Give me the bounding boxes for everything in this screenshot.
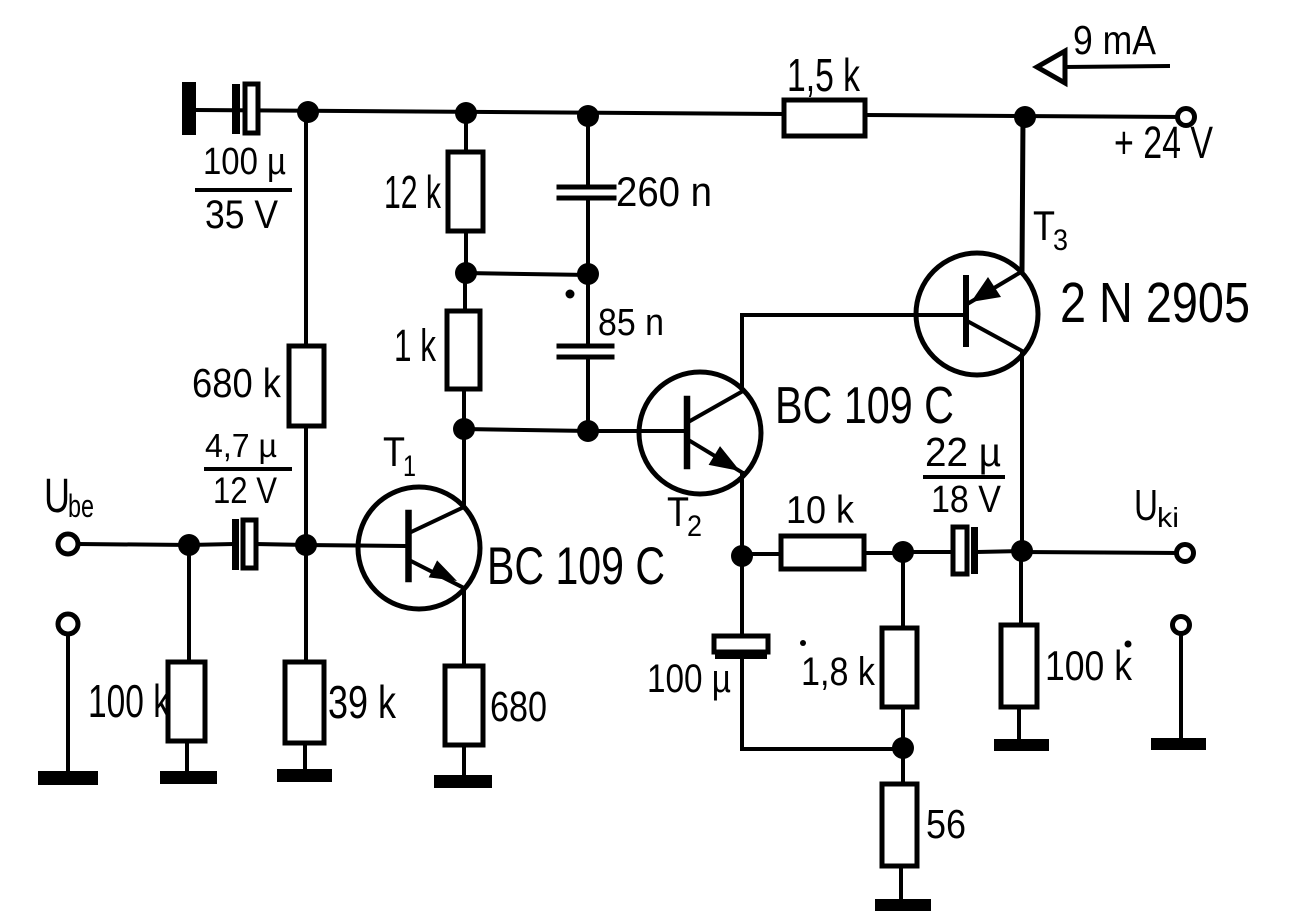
- wire junction E down to R100k left: [187, 545, 191, 662]
- wire junction K down to C100u: [740, 556, 744, 637]
- svg-text:3: 3: [1053, 224, 1068, 257]
- wire R56 to ground: [899, 866, 903, 900]
- ground left stub: [38, 771, 98, 785]
- current arrow 9mA: [1037, 51, 1168, 83]
- wire left stub to ground: [66, 634, 70, 772]
- svg-text:39 k: 39 k: [328, 676, 397, 728]
- label Ube: [44, 470, 94, 524]
- node junction A top rail x308: [297, 101, 319, 123]
- svg-text:+ 24 V: + 24 V: [1114, 117, 1213, 168]
- capacitor C5 22u/18V: [953, 527, 978, 574]
- ground below R56: [875, 899, 931, 911]
- svg-text:be: be: [68, 488, 94, 524]
- node junction E input x189: [178, 534, 200, 556]
- resistor R3 12k: [448, 152, 483, 231]
- svg-text:100 k: 100 k: [1045, 642, 1133, 689]
- svg-text:100 µ: 100 µ: [647, 657, 731, 701]
- resistor R10 39k: [285, 662, 324, 743]
- node junction B top rail x466: [455, 102, 477, 124]
- svg-text:1 k: 1 k: [394, 320, 436, 371]
- resistor R9 100k left: [168, 662, 205, 741]
- resistor R1 1.5k: [784, 100, 865, 136]
- wire junction I down to C85n: [586, 274, 590, 345]
- resistor R2 680k: [289, 346, 324, 426]
- wire junction L to C22u: [903, 550, 953, 554]
- terminal bar left of C1: [182, 82, 196, 135]
- wire T3 collector down to output row: [1020, 352, 1024, 551]
- svg-text:56: 56: [926, 801, 966, 847]
- capacitor C6 100u: [714, 636, 768, 659]
- node junction H x464 y429: [453, 418, 475, 440]
- wire junction to C2: [189, 544, 232, 545]
- wire R1.8k down to junction N: [901, 707, 905, 748]
- wire T3 emitter up to rail junction D: [1022, 117, 1023, 271]
- resistor R8 100k: [1001, 625, 1037, 707]
- node junction F input x306: [295, 534, 317, 556]
- svg-text:ki: ki: [1157, 502, 1179, 533]
- terminal +24V open circle: [1178, 109, 1195, 126]
- resistor R6 1.8k: [882, 628, 917, 707]
- ground below R100k right: [994, 739, 1049, 751]
- wire right stub to ground: [1179, 634, 1183, 739]
- node junction G x466 y273: [455, 262, 477, 284]
- ground below R680: [434, 775, 492, 788]
- node junction D top rail x1025: [1014, 106, 1036, 128]
- wire junction C down to C260n: [586, 116, 590, 186]
- wire C260n to junction I: [586, 198, 590, 274]
- svg-text:85 n: 85 n: [598, 302, 664, 344]
- svg-text:12 k: 12 k: [384, 166, 442, 218]
- wire T1 collector up: [462, 429, 466, 507]
- wire x306 R680k to input row: [304, 426, 308, 545]
- svg-text:10 k: 10 k: [786, 489, 854, 532]
- resistor R5 10k: [781, 536, 864, 569]
- fraction line 4,7u/12V: [206, 467, 290, 471]
- wire R680 to ground: [462, 745, 466, 776]
- label T3: [1033, 202, 1068, 257]
- ground below R100k left: [160, 771, 217, 784]
- transistor Q1 T1 BC109C: [358, 487, 480, 609]
- node junction L x903 y552: [892, 541, 914, 563]
- resistor R11 680: [445, 666, 483, 745]
- transistor Q3 T3 2N2905: [916, 253, 1038, 375]
- wire R1k to junction H: [462, 389, 466, 429]
- ground right stub: [1151, 738, 1206, 750]
- svg-text:260 n: 260 n: [616, 168, 712, 215]
- wire C2 to junction F: [256, 544, 306, 545]
- wire T1 emitter down: [462, 588, 466, 666]
- svg-text:1,8 k: 1,8 k: [801, 650, 876, 694]
- wire junction F down to R39k: [304, 545, 308, 662]
- printing speck: [566, 290, 575, 299]
- wire R100k to ground: [1017, 707, 1021, 739]
- svg-text:U: U: [1134, 481, 1158, 530]
- capacitor C4 85n: [559, 346, 612, 357]
- svg-text:1,5 k: 1,5 k: [787, 49, 861, 101]
- svg-text:1: 1: [403, 450, 416, 483]
- wire R10k to junction L: [864, 551, 903, 555]
- wire junction L down to R1.8k: [901, 552, 905, 628]
- capacitor C2 4.7u: [232, 519, 256, 570]
- node junction K output x742: [731, 545, 753, 567]
- wire top rail right segment: [865, 115, 1186, 117]
- wire T2 emitter down: [740, 473, 744, 556]
- wire R12k to junction G: [464, 231, 468, 273]
- svg-text:22 µ: 22 µ: [925, 429, 1001, 475]
- wire junction M to output terminal: [1022, 552, 1177, 553]
- svg-text:680: 680: [490, 683, 547, 731]
- wire junction F to T1 base: [306, 545, 404, 546]
- wire R39k to ground: [303, 743, 307, 770]
- terminal stub right open circle: [1173, 617, 1190, 634]
- svg-text:100 µ: 100 µ: [203, 141, 286, 183]
- svg-text:18 V: 18 V: [931, 479, 1002, 521]
- svg-text:BC 109 C: BC 109 C: [775, 377, 954, 435]
- svg-text:12 V: 12 V: [213, 470, 277, 511]
- wire C85n down to junction J: [586, 357, 590, 431]
- wire x306 junctionA to R680k: [304, 112, 308, 346]
- wire junction M down to R100k right: [1019, 551, 1023, 625]
- svg-text:T: T: [1033, 202, 1055, 249]
- node junction N x903 y748: [892, 737, 914, 759]
- label T2: [667, 488, 702, 543]
- wire T2 collector up and right to T3 base: [742, 315, 961, 391]
- svg-text:2 N 2905: 2 N 2905: [1060, 271, 1250, 335]
- terminal Ube open circle: [58, 534, 78, 554]
- svg-text:100 k: 100 k: [88, 675, 171, 727]
- wire C22u to junction M: [978, 551, 1022, 552]
- resistor R4 1k: [447, 311, 480, 389]
- svg-text:4,7 µ: 4,7 µ: [205, 427, 277, 464]
- label Uki: [1134, 481, 1179, 533]
- wire junction J to T2 base: [588, 429, 684, 433]
- fraction line 100u/35V: [197, 188, 290, 192]
- wire junction G down to R1k: [463, 273, 467, 311]
- svg-text:680 k: 680 k: [192, 360, 281, 406]
- capacitor C1 100u/35V: [232, 84, 258, 134]
- node junction M x1022 y551: [1011, 540, 1033, 562]
- wire junction H right to cap column: [464, 429, 588, 431]
- wire top rail left segment: [196, 110, 784, 114]
- svg-text:2: 2: [687, 510, 702, 543]
- svg-text:U: U: [44, 470, 70, 523]
- node junction C top rail x588: [577, 105, 599, 127]
- capacitor C3 260n: [559, 187, 614, 198]
- fraction line 22u/18V: [925, 475, 1003, 479]
- wire junction N down to R56: [901, 748, 905, 784]
- terminal stub left open circle: [58, 614, 78, 634]
- ground below R39k: [277, 769, 332, 782]
- label T1: [383, 428, 416, 483]
- transistor Q2 T2 BC109C: [639, 372, 761, 494]
- wire R100k left to ground: [185, 741, 189, 772]
- resistor R7 56: [882, 784, 917, 866]
- wire C100u down and right to junction N: [742, 659, 903, 749]
- svg-text:9 mA: 9 mA: [1073, 17, 1157, 63]
- printing speck near 1,8k: [800, 640, 806, 646]
- wire junction G right to cap column: [466, 273, 588, 275]
- svg-text:35 V: 35 V: [205, 193, 278, 237]
- svg-text:T: T: [667, 488, 689, 535]
- node junction J x588 y431: [577, 420, 599, 442]
- node junction I x588 y274: [577, 263, 599, 285]
- svg-text:BC 109 C: BC 109 C: [487, 537, 665, 596]
- wire Ube to junction: [79, 544, 189, 545]
- wire junction K to R10k: [742, 552, 781, 556]
- terminal Uki open circle: [1177, 545, 1194, 562]
- printing speck near 100k right: [1125, 641, 1132, 648]
- wire junction B down to R12k: [464, 113, 468, 152]
- svg-text:T: T: [383, 428, 405, 475]
